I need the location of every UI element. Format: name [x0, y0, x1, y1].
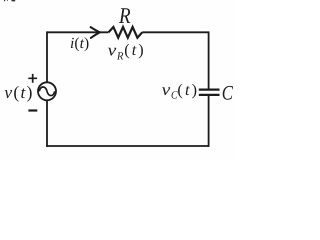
resistor R zigzag — [109, 27, 143, 38]
svg-text:v: v — [162, 80, 171, 99]
svg-text:R: R — [116, 51, 124, 63]
svg-text:(t): (t) — [177, 81, 197, 99]
svg-text:i(t): i(t) — [70, 35, 89, 52]
svg-text:v: v — [108, 40, 117, 59]
plus sign (source polarity) — [28, 74, 37, 83]
wire top-right segment — [142, 31, 208, 33]
wire left lower segment — [46, 101, 48, 147]
minus sign (source polarity) — [28, 109, 37, 111]
svg-text:C: C — [222, 82, 233, 104]
svg-text:v(t): v(t) — [4, 82, 32, 102]
current arrowhead on top wire — [91, 27, 100, 38]
capacitor C bottom plate — [199, 94, 220, 96]
cut-off text fragments at top edge — [4, 0, 15, 2]
svg-text:R: R — [118, 3, 131, 28]
AC voltage source circle — [38, 82, 56, 100]
wire bottom segment — [46, 145, 209, 147]
capacitor C top plate — [199, 88, 220, 90]
wire left upper segment — [46, 31, 48, 82]
wire right upper segment — [208, 31, 210, 88]
wire right lower segment — [208, 96, 210, 147]
sine wave inside source — [39, 87, 54, 96]
svg-text:(t): (t) — [124, 41, 143, 59]
wire top-left segment with current arrow — [47, 31, 109, 33]
